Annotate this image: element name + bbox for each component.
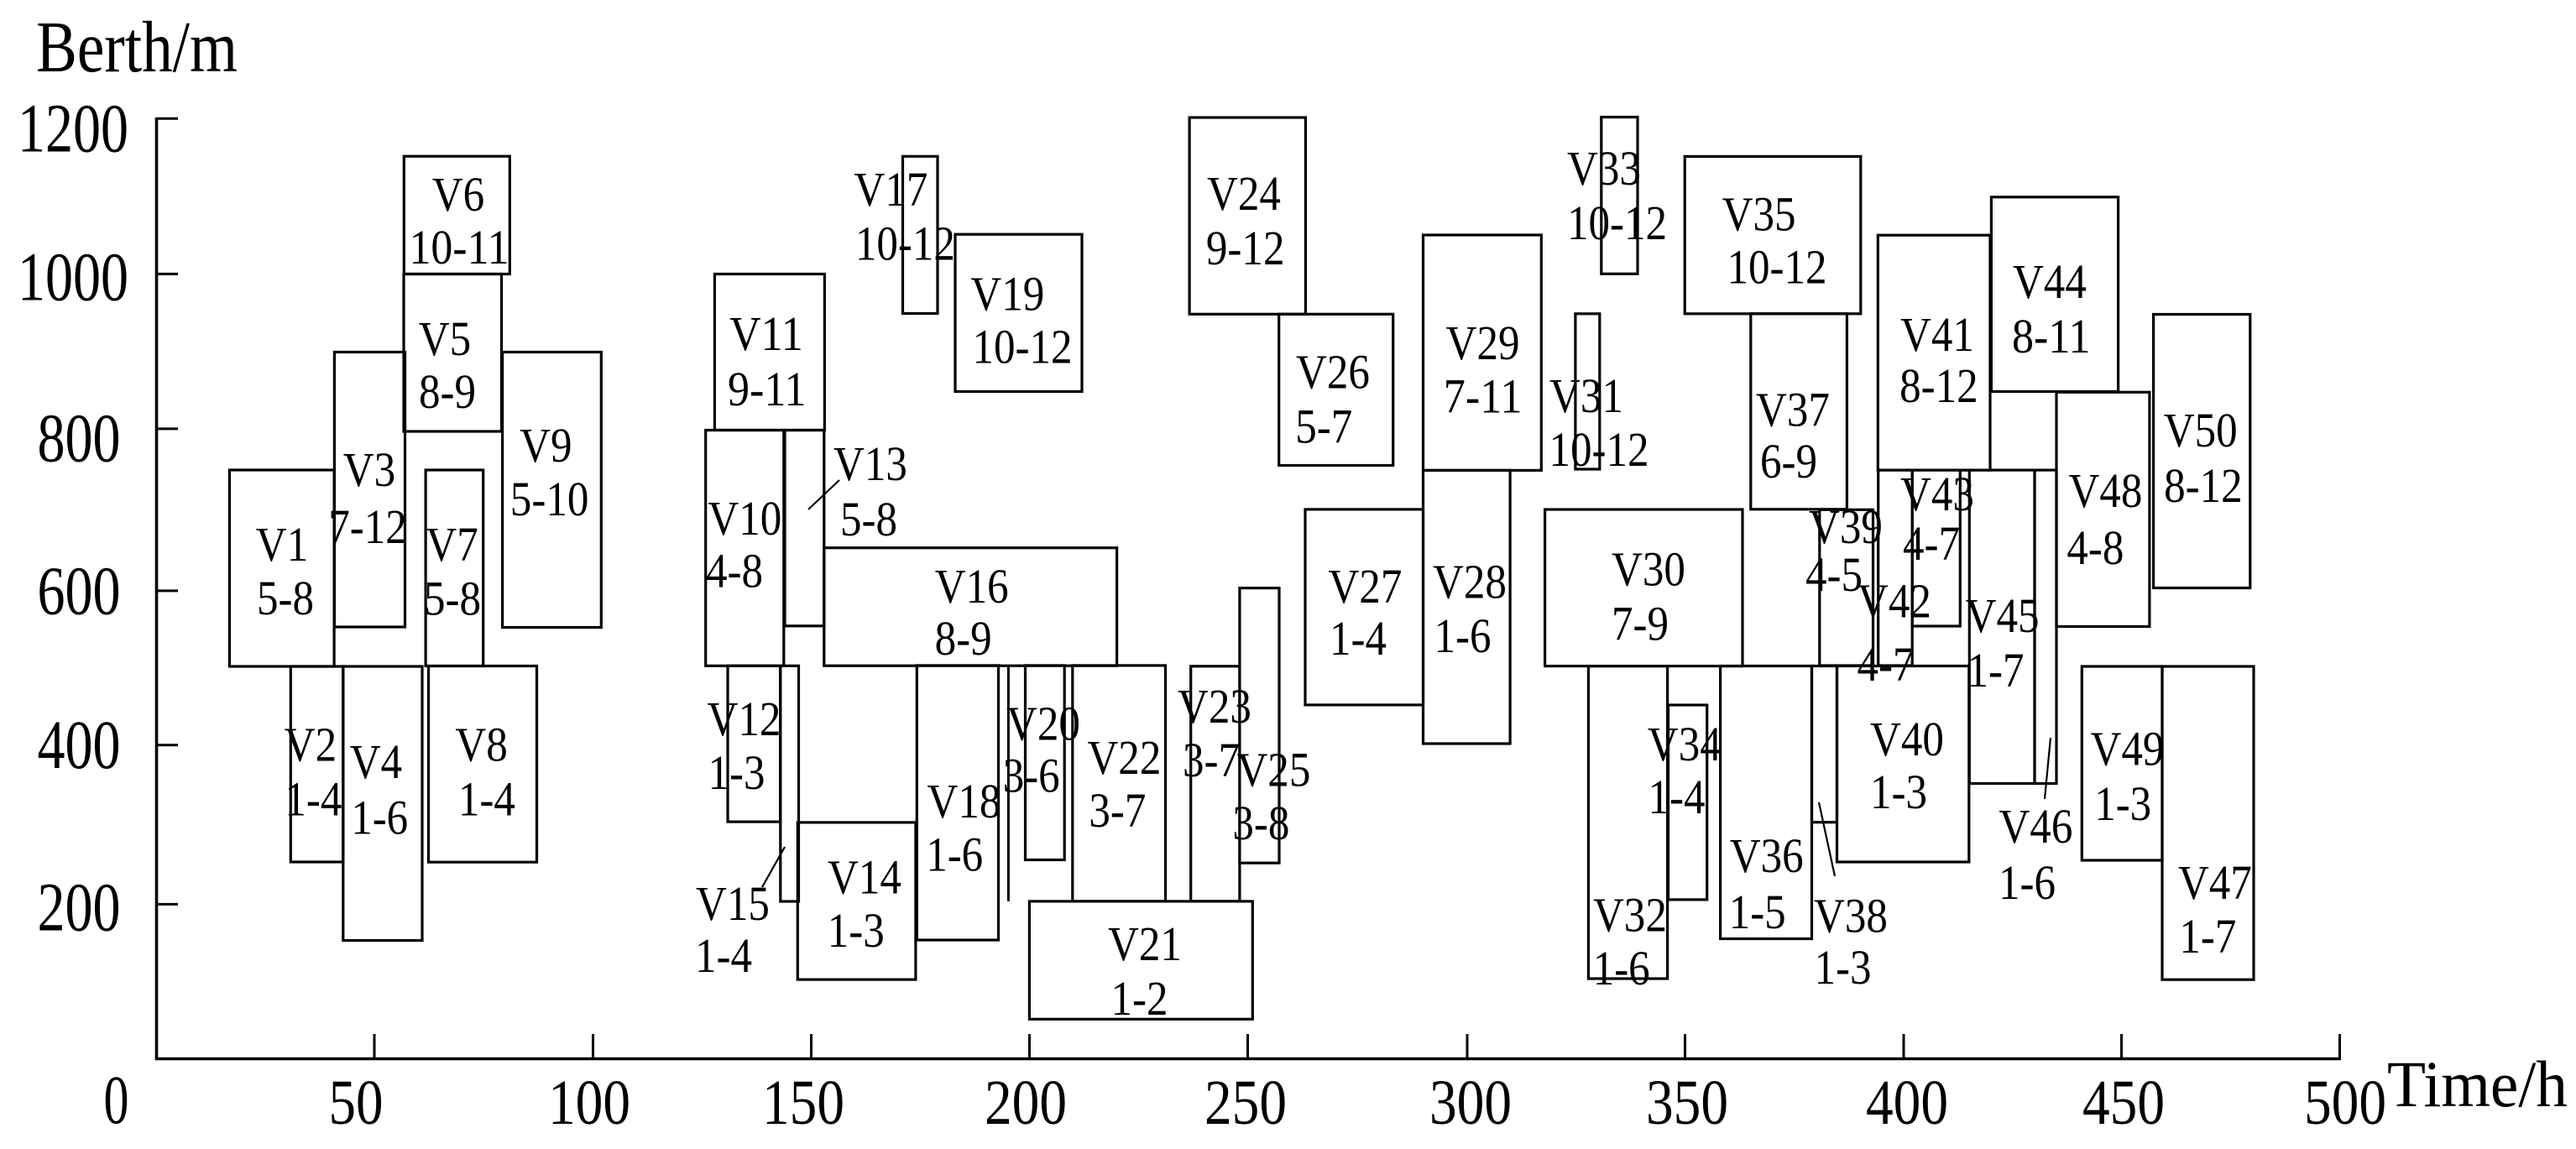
y tick 1000 — [157, 273, 179, 275]
vessel box V13 — [785, 431, 907, 626]
y label 1200 — [18, 90, 128, 167]
svg-text:450: 450 — [2082, 1068, 2165, 1138]
svg-text:V28: V28 — [1433, 555, 1507, 609]
y label 200 — [38, 869, 121, 946]
svg-text:V33: V33 — [1567, 141, 1641, 196]
svg-text:V19: V19 — [970, 266, 1044, 321]
vessel box V14 — [797, 823, 916, 979]
vessel box V12 — [708, 666, 781, 822]
x label 400 — [1866, 1068, 1948, 1138]
svg-text:1-7: 1-7 — [1967, 643, 2025, 697]
svg-text:V24: V24 — [1207, 166, 1281, 221]
x tick 400 — [1903, 1034, 1905, 1059]
vessel box V27 — [1305, 509, 1424, 705]
vessel box V39 — [1805, 499, 1883, 666]
svg-text:3-6: 3-6 — [1003, 749, 1060, 803]
vessel box V4 — [343, 666, 422, 941]
svg-text:V43: V43 — [1900, 467, 1974, 521]
svg-text:4-8: 4-8 — [2067, 520, 2124, 575]
x label 150 — [762, 1068, 844, 1138]
vessel box V10 — [706, 431, 784, 666]
svg-text:5-8: 5-8 — [257, 571, 314, 625]
y-axis title Berth/m — [36, 6, 238, 87]
svg-text:10-12: 10-12 — [1567, 196, 1667, 250]
svg-text:V41: V41 — [1900, 307, 1974, 362]
svg-text:V36: V36 — [1730, 828, 1804, 883]
svg-text:V21: V21 — [1108, 917, 1182, 971]
svg-text:V1: V1 — [256, 517, 308, 572]
y tick 600 — [157, 589, 179, 592]
svg-text:400: 400 — [38, 706, 121, 783]
vessel box V32 — [1588, 666, 1667, 995]
vessel box V28 — [1424, 470, 1511, 744]
vessel box V9 — [503, 353, 602, 628]
svg-text:V13: V13 — [833, 436, 907, 491]
svg-text:V18: V18 — [927, 774, 1001, 828]
x label 500 — [2304, 1068, 2386, 1138]
x label 300 — [1429, 1068, 1512, 1138]
vessel box V50 — [2154, 315, 2250, 588]
svg-text:7-11: 7-11 — [1444, 368, 1523, 423]
vessel box V23 — [1178, 666, 1251, 901]
y label 800 — [38, 400, 121, 477]
svg-text:V25: V25 — [1236, 743, 1310, 797]
svg-text:V34: V34 — [1648, 717, 1722, 771]
svg-text:800: 800 — [38, 400, 121, 477]
y label 600 — [38, 552, 121, 629]
svg-text:V26: V26 — [1296, 345, 1370, 400]
vessel box V21 — [1029, 901, 1252, 1026]
vessel box V3 — [328, 353, 407, 628]
svg-text:8-12: 8-12 — [1899, 358, 1978, 413]
svg-text:7-12: 7-12 — [328, 499, 407, 554]
vessel box V34 — [1648, 705, 1722, 900]
svg-text:5-10: 5-10 — [510, 472, 589, 526]
svg-text:0: 0 — [104, 1061, 129, 1138]
svg-text:1-4: 1-4 — [1330, 611, 1387, 666]
svg-text:10-11: 10-11 — [409, 220, 509, 274]
svg-text:V2: V2 — [285, 717, 337, 771]
svg-text:V29: V29 — [1446, 316, 1520, 370]
vessel box V24 — [1189, 118, 1305, 314]
vessel box V49 — [2082, 666, 2164, 860]
vessel box V35 — [1685, 156, 1861, 313]
vessel box V25 — [1232, 588, 1310, 864]
x tick 300 — [1466, 1034, 1469, 1059]
vessel box V48 — [2056, 392, 2150, 626]
vessel box V22 — [1073, 666, 1166, 901]
svg-text:4-7: 4-7 — [1858, 637, 1915, 692]
svg-text:V49: V49 — [2091, 722, 2165, 776]
vessel box V40 — [1837, 666, 1969, 863]
svg-text:V15: V15 — [696, 876, 770, 931]
svg-text:1-6: 1-6 — [351, 791, 408, 845]
svg-text:10-12: 10-12 — [972, 320, 1072, 374]
svg-text:1-6: 1-6 — [1593, 941, 1650, 995]
vessel box V18 — [917, 666, 1001, 940]
svg-text:7-9: 7-9 — [1612, 596, 1669, 650]
svg-text:1000: 1000 — [18, 238, 128, 316]
vessel box V15 — [695, 666, 799, 983]
svg-text:V9: V9 — [520, 418, 572, 473]
svg-text:1-3: 1-3 — [828, 903, 885, 958]
svg-text:1-7: 1-7 — [2179, 909, 2236, 964]
x label 350 — [1646, 1068, 1728, 1138]
svg-text:V17: V17 — [854, 162, 928, 217]
V13 callout — [808, 480, 839, 509]
x label 200 — [985, 1068, 1067, 1138]
x-axis line — [155, 1058, 2341, 1061]
svg-text:150: 150 — [762, 1068, 844, 1138]
svg-text:V30: V30 — [1612, 541, 1685, 596]
svg-text:9-12: 9-12 — [1206, 221, 1285, 275]
svg-text:1-5: 1-5 — [1729, 885, 1786, 939]
vessel box V29 — [1424, 235, 1542, 470]
svg-text:250: 250 — [1204, 1068, 1287, 1138]
vessel box V7 — [424, 470, 483, 666]
svg-text:V22: V22 — [1087, 730, 1161, 785]
svg-text:1-4: 1-4 — [695, 928, 752, 983]
svg-text:V11: V11 — [729, 306, 803, 361]
svg-text:200: 200 — [985, 1068, 1067, 1138]
vessel box V17 — [854, 156, 955, 313]
svg-text:300: 300 — [1429, 1068, 1512, 1138]
y label 400 — [38, 706, 121, 783]
vessel box V46 — [1999, 470, 2072, 910]
svg-text:1-4: 1-4 — [1649, 770, 1706, 824]
svg-text:V35: V35 — [1722, 186, 1796, 241]
berth-750 line filler between V43 and V45 — [1958, 468, 1971, 471]
svg-text:8-9: 8-9 — [935, 611, 992, 666]
svg-text:V16: V16 — [935, 559, 1009, 614]
svg-text:1-3: 1-3 — [1815, 940, 1872, 995]
svg-text:V12: V12 — [708, 692, 781, 746]
svg-text:V10: V10 — [708, 491, 781, 546]
svg-text:V38: V38 — [1814, 889, 1888, 943]
vessel box V16 — [824, 548, 1117, 666]
vessel box V2 — [285, 666, 343, 862]
vessel box V33 — [1567, 118, 1667, 274]
svg-text:10-12: 10-12 — [855, 216, 955, 270]
svg-text:V40: V40 — [1870, 712, 1944, 766]
vessel box V36 — [1721, 666, 1812, 940]
svg-text:4-5: 4-5 — [1805, 547, 1863, 602]
svg-text:100: 100 — [548, 1068, 630, 1138]
svg-text:1-6: 1-6 — [1434, 608, 1492, 663]
svg-text:1-6: 1-6 — [1999, 855, 2056, 910]
vessel box V47 — [2162, 666, 2254, 979]
svg-text:3-7: 3-7 — [1089, 783, 1146, 838]
svg-text:V37: V37 — [1756, 383, 1830, 437]
V15 callout — [762, 847, 785, 887]
svg-text:V45: V45 — [1966, 588, 2040, 643]
svg-text:V44: V44 — [2013, 254, 2087, 309]
svg-text:10-12: 10-12 — [1727, 240, 1826, 295]
svg-text:V39: V39 — [1809, 499, 1883, 554]
svg-text:1-3: 1-3 — [1870, 765, 1927, 819]
vessel box V19 — [955, 234, 1082, 391]
svg-text:1-3: 1-3 — [708, 745, 765, 800]
x tick 150 — [810, 1034, 813, 1059]
x tick 350 — [1684, 1034, 1686, 1059]
y label 0 — [104, 1061, 129, 1138]
svg-text:4-7: 4-7 — [1903, 516, 1960, 571]
svg-text:5-7: 5-7 — [1295, 400, 1352, 454]
svg-text:V47: V47 — [2178, 855, 2252, 910]
V46 callout — [2045, 738, 2051, 799]
svg-text:V20: V20 — [1006, 697, 1080, 751]
x tick 50 — [374, 1034, 376, 1059]
x-axis title Time/h — [2387, 1047, 2568, 1120]
x label 450 — [2082, 1068, 2165, 1138]
vessel box V38 — [1812, 666, 1888, 995]
svg-text:V48: V48 — [2068, 463, 2142, 518]
svg-text:350: 350 — [1646, 1068, 1728, 1138]
vessel box V44 — [1991, 197, 2118, 392]
svg-text:V8: V8 — [455, 717, 507, 771]
x tick 500 — [2338, 1034, 2341, 1059]
svg-text:Berth/m: Berth/m — [36, 6, 238, 87]
svg-text:1-6: 1-6 — [926, 828, 983, 882]
x label 250 — [1204, 1068, 1287, 1138]
vessel box V41 — [1878, 235, 1990, 470]
x tick 200 — [1028, 1034, 1031, 1059]
V38 callout — [1819, 802, 1835, 876]
vessel box V31 — [1549, 314, 1649, 477]
svg-text:3-7: 3-7 — [1183, 733, 1240, 787]
x label 50 — [329, 1068, 384, 1138]
svg-text:V14: V14 — [828, 849, 901, 904]
svg-text:600: 600 — [38, 552, 121, 629]
vessel box V26 — [1279, 314, 1393, 465]
svg-text:V5: V5 — [419, 311, 471, 366]
svg-text:8-11: 8-11 — [2012, 309, 2091, 363]
vessel box V37 — [1751, 314, 1847, 509]
svg-text:400: 400 — [1866, 1068, 1948, 1138]
svg-text:50: 50 — [329, 1068, 384, 1138]
vessel box V20 — [1003, 666, 1080, 860]
y tick 800 — [157, 427, 179, 430]
vessel box V6 — [404, 156, 509, 274]
svg-text:5-8: 5-8 — [840, 492, 897, 546]
svg-text:1-4: 1-4 — [285, 772, 342, 827]
vessel box V45 — [1966, 470, 2040, 783]
vessel box V1 — [229, 470, 334, 666]
svg-text:V42: V42 — [1858, 573, 1931, 628]
svg-text:V32: V32 — [1593, 887, 1667, 942]
svg-text:200: 200 — [38, 869, 121, 946]
vessel box V42 — [1858, 470, 1931, 692]
svg-text:3-8: 3-8 — [1232, 796, 1289, 850]
vessel box V11 — [714, 274, 824, 431]
svg-text:1-3: 1-3 — [2094, 776, 2151, 831]
x label 100 — [548, 1068, 630, 1138]
svg-text:5-8: 5-8 — [424, 572, 481, 626]
svg-text:V4: V4 — [350, 734, 402, 789]
y tick 1200 — [157, 118, 179, 120]
svg-text:V50: V50 — [2164, 403, 2238, 457]
y-axis line — [155, 118, 159, 1059]
svg-text:6-9: 6-9 — [1760, 434, 1817, 488]
y tick 200 — [157, 903, 179, 906]
svg-text:8-9: 8-9 — [419, 364, 476, 419]
svg-text:10-12: 10-12 — [1549, 422, 1649, 477]
unlabeled vertical segment near V18 — [1007, 666, 1010, 901]
svg-text:V46: V46 — [1999, 799, 2072, 854]
svg-text:Time/h: Time/h — [2387, 1047, 2568, 1120]
vessel box V30 — [1545, 509, 1743, 666]
svg-text:1-2: 1-2 — [1111, 971, 1168, 1026]
svg-text:1-4: 1-4 — [458, 772, 515, 827]
x tick 250 — [1246, 1034, 1249, 1059]
svg-text:V3: V3 — [343, 442, 395, 497]
svg-text:V6: V6 — [432, 167, 484, 222]
x tick 450 — [2120, 1034, 2123, 1059]
svg-text:4-8: 4-8 — [706, 543, 763, 598]
svg-text:1200: 1200 — [18, 90, 128, 167]
svg-text:8-12: 8-12 — [2164, 458, 2243, 513]
svg-text:V31: V31 — [1549, 368, 1623, 423]
x tick 100 — [592, 1034, 594, 1059]
vessel box V8 — [429, 666, 537, 863]
vessel box V43 — [1900, 467, 1974, 626]
vessel box V5 — [404, 274, 502, 432]
svg-text:500: 500 — [2304, 1068, 2386, 1138]
svg-text:9-11: 9-11 — [728, 362, 807, 416]
svg-text:V7: V7 — [426, 517, 478, 572]
y label 1000 — [18, 238, 128, 316]
svg-text:V27: V27 — [1328, 559, 1402, 614]
y tick 400 — [157, 744, 179, 746]
